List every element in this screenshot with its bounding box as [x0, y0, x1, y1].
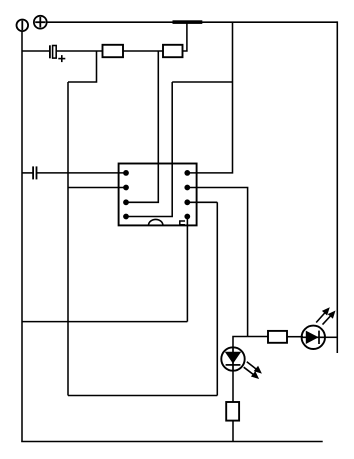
wire left rail to C1	[22, 50, 49, 52]
IC pin 7	[184, 199, 190, 205]
IC pin 3	[123, 199, 129, 205]
LED D2	[302, 326, 325, 349]
LED D2 arrows	[316, 307, 335, 324]
terminal J2 (plus)	[34, 16, 47, 29]
wire to IC pin 2	[68, 187, 126, 189]
IC pin 1	[123, 170, 129, 176]
wire pin 8 to left rail	[22, 321, 187, 323]
IC U1 body	[119, 164, 197, 226]
IC pin 5	[184, 170, 190, 176]
IC U1 index mark	[180, 221, 185, 225]
capacitor C2	[33, 166, 36, 179]
wire C2 to IC pin 1	[37, 172, 127, 174]
wire left branch vertical	[67, 82, 69, 396]
wire right rail	[336, 21, 338, 353]
wire R2 to top rail	[183, 22, 187, 51]
wire junction drop left of R1	[68, 51, 97, 82]
resistor R3	[268, 331, 287, 343]
wire R4 to bottom rail	[232, 421, 234, 442]
wire IC pin 3 riser	[126, 51, 158, 202]
wire left rail to C2	[22, 172, 33, 174]
IC U1 notch	[149, 219, 163, 225]
resistor R2	[163, 45, 183, 57]
wire C1 to R1	[56, 50, 102, 52]
IC pin 2	[123, 185, 129, 191]
wire LED D1 top	[233, 337, 248, 348]
wire LED D2 to right rail	[325, 336, 338, 338]
wire R1 to R2	[123, 50, 163, 52]
wire R3 to LED D2	[287, 336, 303, 338]
LED D1 arrows	[244, 362, 262, 379]
wire IC pin 8 drop	[186, 217, 188, 322]
terminal J1 (circle with bar)	[17, 20, 29, 32]
IC pin 8	[184, 214, 190, 220]
wire right branch vertical	[216, 202, 218, 395]
wire IC pin 7 to right branch	[187, 201, 217, 203]
wire bottom cross link	[68, 395, 217, 397]
resistor R1	[103, 45, 124, 57]
capacitor C1 (polarized)	[50, 45, 65, 62]
resistor R4	[226, 402, 239, 421]
wire node to R3	[248, 336, 268, 338]
wire overlap segment on top rail	[173, 20, 203, 24]
wire y82 link	[172, 81, 232, 83]
wire left rail	[21, 31, 23, 441]
wire top rail to IC pin 5	[187, 22, 232, 173]
wire bottom rail	[21, 441, 323, 443]
LED D1	[221, 347, 244, 371]
wire top rail	[47, 21, 338, 23]
IC pin 6	[184, 185, 190, 191]
wire IC pin 4 riser	[126, 82, 172, 217]
wire IC pin 6 to LED node	[187, 188, 247, 337]
wire D1 to R4	[232, 371, 234, 402]
IC pin 4	[123, 214, 129, 220]
